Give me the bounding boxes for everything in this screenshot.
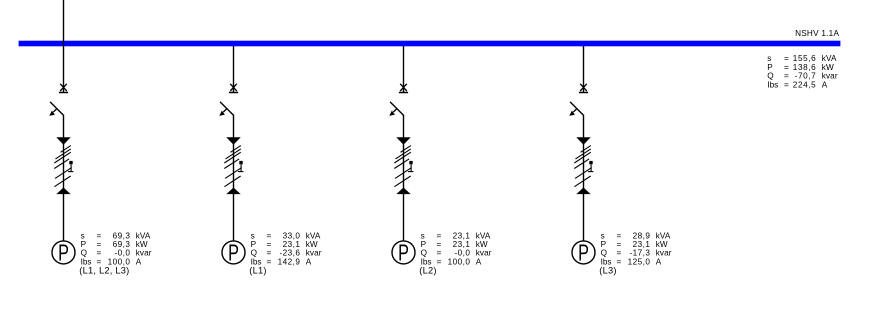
load M3: consumer circle with P [392, 240, 415, 266]
wire: breaker Q4 to cable W4 [583, 115, 585, 138]
circuit breaker Q1: contact cross [60, 84, 67, 91]
load M4: calculated values text [599, 232, 671, 276]
svg-text:A: A [306, 257, 312, 266]
svg-text:155,6: 155,6 [793, 54, 817, 63]
load M4: consumer circle with P [572, 240, 595, 266]
cable W3: hatched cable symbol [394, 137, 413, 194]
circuit breaker Q1: fixed contact bar [59, 92, 68, 94]
svg-text:=: = [784, 72, 789, 81]
wire: busbar drop to breaker Q4 [583, 46, 585, 92]
svg-text:kVA: kVA [822, 54, 837, 63]
cable W1: hatched cable symbol [54, 137, 73, 194]
wire: breaker Q3 to cable W3 [403, 115, 405, 138]
incoming supply wire [63, 0, 65, 46]
svg-text:NSHV 1.1A: NSHV 1.1A [795, 29, 839, 38]
load M1: calculated values text [79, 232, 151, 276]
svg-text:224,5: 224,5 [793, 80, 817, 89]
circuit breaker Q3: fixed contact bar [399, 92, 408, 94]
wire: busbar drop to breaker Q1 [63, 46, 65, 92]
circuit breaker Q3: switch blade [390, 102, 403, 115]
svg-text:A: A [822, 80, 828, 89]
wire: cable W4 to load M4 [583, 194, 585, 242]
svg-text:kW: kW [822, 63, 834, 72]
svg-text:(L1): (L1) [249, 265, 266, 275]
svg-text:-70,7: -70,7 [795, 72, 817, 81]
wire: breaker Q1 to cable W1 [63, 115, 65, 138]
svg-text:138,6: 138,6 [793, 63, 817, 72]
svg-text:P: P [398, 240, 409, 266]
wire: breaker Q2 to cable W2 [233, 115, 235, 138]
circuit breaker Q4: contact cross [580, 84, 587, 91]
svg-text:s: s [767, 54, 771, 63]
svg-text:A: A [656, 257, 662, 266]
svg-text:=: = [784, 54, 789, 63]
cable W4: hatched cable symbol [574, 137, 593, 194]
wire: busbar drop to breaker Q2 [233, 46, 235, 92]
circuit breaker Q3: contact cross [400, 84, 407, 91]
circuit breaker Q2: contact cross [230, 84, 237, 91]
circuit breaker Q2: release arrow [219, 109, 227, 116]
wire: cable W2 to load M2 [233, 194, 235, 242]
wire: cable W1 to load M1 [63, 194, 65, 242]
svg-text:Ibs: Ibs [767, 80, 778, 89]
wire: busbar drop to breaker Q3 [403, 46, 405, 92]
svg-text:125,0: 125,0 [628, 257, 651, 266]
svg-text:=: = [784, 80, 789, 89]
svg-text:A: A [136, 257, 142, 266]
circuit breaker Q1: release arrow [49, 109, 57, 116]
load M2: calculated values text [249, 232, 321, 276]
svg-text:P: P [228, 240, 239, 266]
svg-text:=: = [267, 257, 272, 266]
svg-text:(L1, L2, L3): (L1, L2, L3) [79, 265, 129, 275]
circuit breaker Q2: switch blade [220, 102, 233, 115]
svg-text:=: = [784, 63, 789, 72]
svg-text:(L2): (L2) [419, 265, 436, 275]
circuit breaker Q4: release arrow [569, 109, 577, 116]
circuit breaker Q3: release arrow [389, 109, 397, 116]
busbar totals text [767, 54, 838, 89]
load M1: consumer circle with P [52, 240, 75, 266]
svg-text:P: P [578, 240, 589, 266]
circuit breaker Q4: fixed contact bar [579, 92, 588, 94]
svg-text:(L3): (L3) [599, 265, 616, 275]
svg-text:kvar: kvar [822, 72, 838, 81]
svg-text:Q: Q [767, 72, 773, 81]
circuit breaker Q2: fixed contact bar [229, 92, 238, 94]
svg-text:A: A [476, 257, 482, 266]
cable W2: hatched cable symbol [224, 137, 243, 194]
svg-text:P: P [58, 240, 69, 266]
svg-text:=: = [437, 257, 442, 266]
busbar NSHV 1.1A [19, 41, 841, 47]
svg-text:=: = [617, 257, 622, 266]
svg-text:142,9: 142,9 [278, 257, 301, 266]
load M3: calculated values text [419, 232, 491, 276]
svg-text:P: P [767, 63, 773, 72]
wire: cable W3 to load M3 [403, 194, 405, 242]
svg-text:100,0: 100,0 [448, 257, 471, 266]
circuit breaker Q1: switch blade [50, 102, 63, 115]
load M2: consumer circle with P [222, 240, 245, 266]
circuit breaker Q4: switch blade [570, 102, 583, 115]
